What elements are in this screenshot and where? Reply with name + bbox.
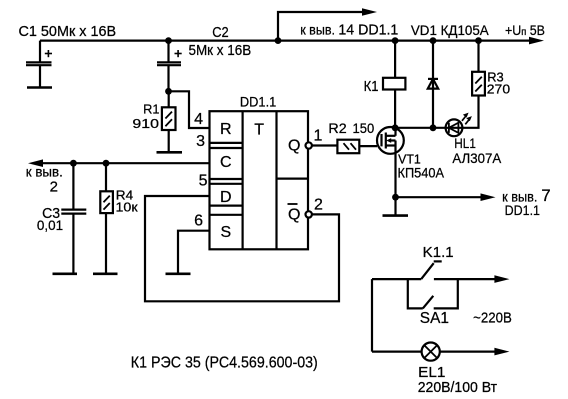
svg-text:C2: C2 <box>212 24 229 41</box>
relay contact K1.1 <box>372 261 495 279</box>
node junction branch to pin14 <box>275 37 282 44</box>
svg-text:АЛ307А: АЛ307А <box>452 150 501 166</box>
arrow mains top <box>494 275 509 283</box>
pin 1 output circle <box>306 142 312 148</box>
ground bar pin6 <box>166 272 191 275</box>
svg-text:7: 7 <box>541 186 550 205</box>
chip cell line R bottom <box>210 142 243 144</box>
svg-text:4: 4 <box>194 111 203 128</box>
chip cell line S top <box>210 214 243 216</box>
wire drain to K1 <box>394 90 396 128</box>
wire branch up to pin 14 arrow <box>278 12 362 41</box>
pin 2 output circle <box>306 211 312 217</box>
svg-text:T: T <box>254 122 264 139</box>
transistor Q1: MOSFET VT1 <box>377 127 404 154</box>
svg-text:10к: 10к <box>116 199 138 214</box>
wire lamp row right <box>440 351 495 353</box>
ground bar under R4 <box>93 272 118 275</box>
svg-text:к выв.: к выв. <box>300 22 335 38</box>
node junction K1-rail <box>392 37 399 44</box>
arrow mains bottom <box>494 348 509 356</box>
svg-text:S: S <box>221 224 232 241</box>
wire source down <box>394 154 396 197</box>
capacitor C2 <box>157 50 182 91</box>
ground bar under R1 <box>157 151 183 154</box>
wire lamp row left <box>372 351 422 353</box>
svg-text:C: C <box>220 154 232 171</box>
wire mains left vertical <box>371 279 373 352</box>
svg-text:14 DD1.1: 14 DD1.1 <box>338 22 398 39</box>
node junction C3 tap <box>70 160 77 167</box>
node junction source <box>392 194 399 201</box>
chip column divider right <box>275 111 277 249</box>
wire C1 top lead <box>39 41 41 62</box>
node junction drain <box>392 124 399 131</box>
relay coil K1 <box>383 41 405 90</box>
svg-text:5Мк x 16В: 5Мк x 16В <box>189 42 252 59</box>
svg-text:K1.1: K1.1 <box>423 244 454 261</box>
svg-text:к выв.: к выв. <box>26 163 63 179</box>
chip cell line D top <box>210 183 243 185</box>
svg-text:HL1: HL1 <box>454 135 476 151</box>
svg-text:C1 50Мк x 16В: C1 50Мк x 16В <box>19 23 117 40</box>
svg-text:~220В: ~220В <box>473 310 512 327</box>
diode VD1 <box>428 41 438 128</box>
ground bar under C3 <box>53 272 78 275</box>
svg-text:DD1.1: DD1.1 <box>505 202 541 218</box>
svg-text:5: 5 <box>199 172 208 189</box>
node junction C2 bottom <box>165 88 172 95</box>
svg-text:6: 6 <box>194 213 203 230</box>
resistor R4 <box>100 163 113 273</box>
wire source to pin7 arrow <box>396 196 482 198</box>
chip output divider <box>277 178 309 180</box>
node junction R4 tap <box>103 160 110 167</box>
arrow to pin 2 (left) <box>28 159 43 167</box>
svg-text:SA1: SA1 <box>420 310 449 327</box>
capacitor C3 <box>61 163 86 273</box>
resistor R2 <box>337 140 377 154</box>
svg-text:220В/100 Вт: 220В/100 Вт <box>418 379 498 396</box>
svg-text:R2: R2 <box>328 121 346 136</box>
capacitor C1 <box>26 50 52 87</box>
chip cell line C top <box>210 147 243 149</box>
wire pin5 feedback loop <box>145 196 339 301</box>
wire node to pin4 <box>169 91 210 128</box>
ground bar under C1 <box>27 86 52 89</box>
wire pin3 rail to left arrow <box>42 162 210 164</box>
node junction VD1-rail <box>430 37 437 44</box>
svg-text:VD1 КД105А: VD1 КД105А <box>411 22 489 38</box>
svg-text:К1: К1 <box>364 78 379 95</box>
wire source to ground <box>394 197 396 215</box>
svg-text:D: D <box>220 189 232 206</box>
svg-text:Q: Q <box>288 207 300 224</box>
svg-text:0,01: 0,01 <box>37 217 63 233</box>
node junction VD1 bottom <box>430 124 437 131</box>
lamp EL1 <box>422 343 440 361</box>
wire pin1 to R2 <box>312 144 338 146</box>
node junction R3-rail <box>475 37 482 44</box>
LED HL1 <box>446 113 472 137</box>
svg-text:VT1: VT1 <box>398 151 421 166</box>
arrow +U supply <box>529 37 544 45</box>
svg-text:910: 910 <box>132 116 159 131</box>
wire drain rail to LED <box>395 127 462 129</box>
op-amp U1: flip-flop DD1.1 outline <box>210 111 309 249</box>
svg-text:2: 2 <box>314 196 323 213</box>
ground bar under VT1 <box>383 214 409 217</box>
chip cell line D bottom <box>210 205 243 207</box>
node junction C2-rail <box>165 37 172 44</box>
svg-text:Q: Q <box>288 138 300 155</box>
svg-text:R: R <box>220 121 232 138</box>
resistor R1 <box>162 91 176 152</box>
svg-text:150: 150 <box>353 121 375 136</box>
wire C2 top lead <box>167 41 169 62</box>
svg-text:К1 РЭС 35 (РС4.569.600-03): К1 РЭС 35 (РС4.569.600-03) <box>131 355 318 372</box>
svg-text:1: 1 <box>314 128 323 145</box>
chip column divider left <box>242 111 244 249</box>
svg-text:270: 270 <box>487 82 510 97</box>
svg-text:R1: R1 <box>143 102 159 117</box>
wire top supply rail <box>40 39 529 41</box>
wire pin6 to ground <box>178 231 210 274</box>
arrow to pin 7 <box>481 193 496 201</box>
resistor R3 <box>462 41 485 128</box>
svg-text:2: 2 <box>50 179 58 196</box>
arrow to pin 14 <box>362 8 377 16</box>
svg-text:КП540А: КП540А <box>398 165 445 180</box>
svg-text:3: 3 <box>196 133 205 150</box>
svg-text:DD1.1: DD1.1 <box>240 94 277 110</box>
chip cell line C bottom <box>210 178 243 180</box>
switch SA1 <box>408 279 458 308</box>
